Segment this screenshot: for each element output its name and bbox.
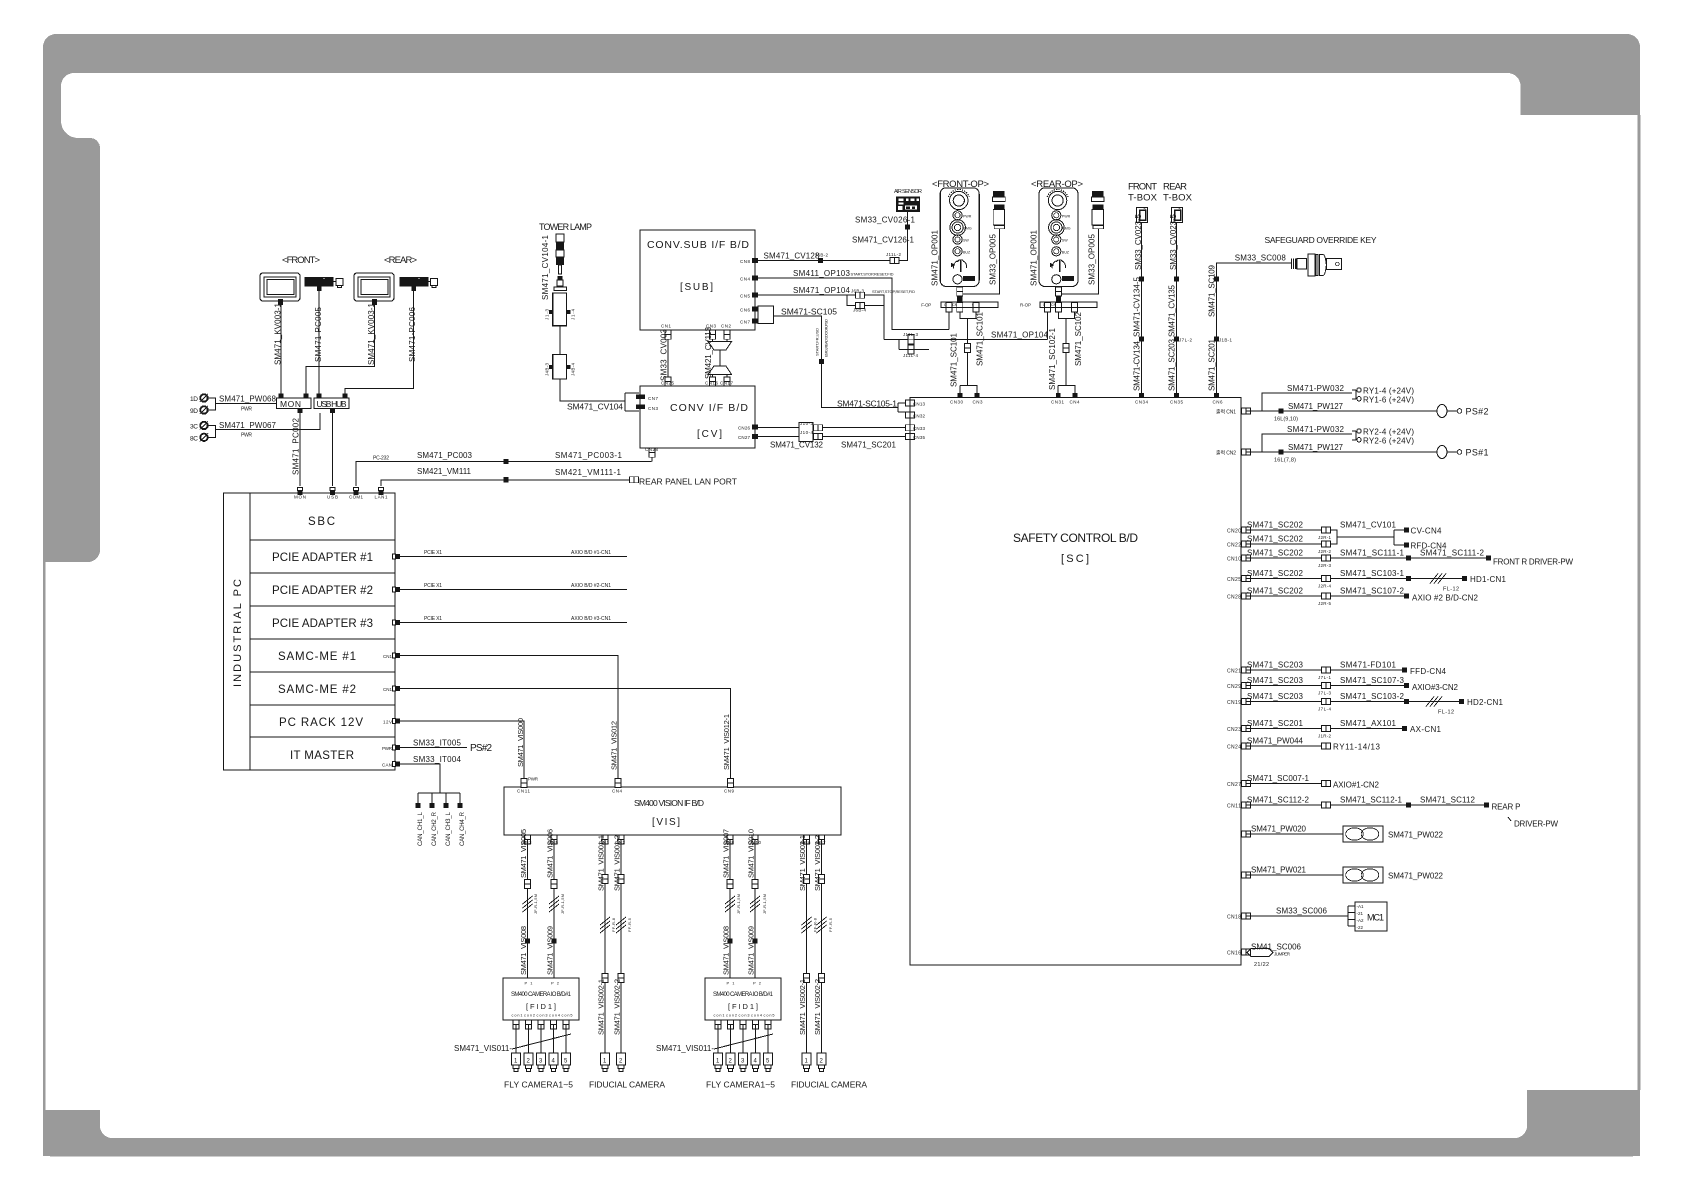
svg-text:SM471_SC202: SM471_SC202 [1247,587,1304,596]
VIS bottom pin CN7 [819,835,825,844]
svg-text:SM471_PC002: SM471_PC002 [292,417,301,475]
svg-text:CN25: CN25 [1227,577,1241,583]
industrial PC outer box [224,493,396,770]
LAN1 wire VM111 [381,480,632,486]
wire F-OP CN2 to OP103 [948,312,950,330]
svg-text:SM471_SC202: SM471_SC202 [1247,535,1304,544]
svg-text:CAN: CAN [382,763,392,768]
svg-text:SM471_VIS005: SM471_VIS005 [519,829,528,878]
svg-text:CN4: CN4 [740,276,750,281]
svg-text:CN26: CN26 [738,426,750,431]
svg-text:J10-4: J10-4 [800,430,813,435]
svg-text:FRONT: FRONT [1128,182,1157,193]
svg-text:J7L-4: J7L-4 [1318,707,1331,712]
svg-text:SM471_PW068: SM471_PW068 [219,395,277,404]
PCIE2 pin and wire [393,587,401,592]
MON top pins [279,394,284,399]
svg-text:SM400 CAMERA IO B/D#1: SM400 CAMERA IO B/D#1 [511,992,572,998]
CV top pin CN17 [724,377,730,386]
VIS top pins [521,778,527,787]
svg-text:CN24: CN24 [1227,745,1241,751]
PCIE1 pin and wire [393,554,401,559]
svg-text:SM471_KV003-1: SM471_KV003-1 [367,302,376,365]
svg-text:SM471_PC003-1: SM471_PC003-1 [555,451,623,460]
svg-text:con3: con3 [537,1014,548,1018]
svg-text:J6B-3: J6B-3 [851,288,864,293]
svg-text:CN11: CN11 [517,789,530,794]
svg-text:<REAR>: <REAR> [384,255,417,266]
svg-text:SM33_IT005: SM33_IT005 [413,739,462,748]
keyboard rear [400,277,438,291]
svg-text:SM33_SC008: SM33_SC008 [1235,253,1287,262]
svg-text:EMG: EMG [1062,227,1070,231]
monitor front [260,273,300,305]
svg-text:AXIO B/D #3-CN1: AXIO B/D #3-CN1 [571,616,611,622]
fiducial cameras 1 [601,1053,610,1072]
svg-text:21/22: 21/22 [1254,962,1269,968]
svg-text:SM471_PW067: SM471_PW067 [219,421,277,430]
svg-text:FF-R-8: FF-R-8 [611,917,616,932]
CV top pin CN25 [665,377,671,386]
svg-text:SM471_SC201: SM471_SC201 [1208,338,1217,391]
svg-text:SM471_SC202: SM471_SC202 [1247,521,1304,530]
svg-text:PCIE ADAPTER #1: PCIE ADAPTER #1 [272,552,373,564]
svg-text:SM471_VIS002-1: SM471_VIS002-1 [597,979,606,1035]
svg-text:SM471_SC007-1: SM471_SC007-1 [1247,774,1310,783]
svg-text:CONV.SUB I/F B/D: CONV.SUB I/F B/D [647,239,749,251]
svg-text:SM33_CV023-5: SM33_CV023-5 [1169,213,1178,270]
CV101 wire CN20/CN22 to CV-CN4 RFD-CN4 [1331,530,1405,545]
svg-text:FL-12: FL-12 [1438,710,1454,716]
wire keyboard rear to USB HUB [345,291,414,395]
svg-text:CN2: CN2 [721,324,731,329]
fly2 cable A [729,840,731,979]
svg-text:T-BOX: T-BOX [1163,193,1193,204]
svg-text:SM471_PW127: SM471_PW127 [1288,443,1344,452]
tower lamp connector box 2 [545,354,576,379]
svg-text:SM471_KV003-1: SM471_KV003-1 [274,302,283,365]
svg-text:J2R-5: J2R-5 [1318,601,1331,606]
svg-text:SM471_SC111-1: SM471_SC111-1 [1340,549,1405,558]
svg-text:SM471_SC109: SM471_SC109 [1208,264,1217,317]
svg-text:CN30: CN30 [950,400,963,405]
svg-text:SM471_SC201: SM471_SC201 [841,441,897,450]
svg-text:START,FR,USD: START,FR,USD [815,328,820,356]
svg-text:PCIE ADAPTER #2: PCIE ADAPTER #2 [272,585,373,597]
wire air sensor to SUB CN8 [758,212,908,261]
svg-text:SM421_CV113: SM421_CV113 [704,326,713,379]
svg-text:PWR: PWR [1062,214,1071,218]
PCIE adapter 2 row [250,605,395,607]
wire PW067 [208,413,320,437]
svg-text:SM471_VIS007: SM471_VIS007 [722,829,731,878]
svg-text:SM33_CV023-5: SM33_CV023-5 [1134,213,1143,270]
R-OP pins below [1044,303,1050,312]
CONV.SUB box [640,230,755,330]
svg-text:INDUSTRIAL PC: INDUSTRIAL PC [232,579,244,687]
svg-text:PCIE ADAPTER #3: PCIE ADAPTER #3 [272,618,373,630]
SC right CN24 row RY11 [1241,743,1250,749]
svg-text:SM471_SC201: SM471_SC201 [1247,719,1304,728]
svg-text:PC-232: PC-232 [373,456,389,462]
svg-text:SM471_OP104: SM471_OP104 [991,330,1049,339]
frame right block fillet [1521,102,1534,115]
svg-text:SM471_PW020: SM471_PW020 [1251,825,1307,834]
svg-text:USB HUB: USB HUB [317,399,347,409]
PC top pin LAN1 [379,488,384,496]
svg-text:SM471_VIS009: SM471_VIS009 [546,926,555,975]
svg-text:CONV I/F B/D: CONV I/F B/D [670,402,748,414]
svg-text:con3: con3 [739,1014,750,1018]
svg-text:-A2: -A2 [1357,918,1365,923]
svg-text:SM471-CV134: SM471-CV134 [1133,340,1142,391]
svg-text:J4B-4: J4B-4 [571,363,576,376]
svg-text:RY1-4 (+24V): RY1-4 (+24V) [1363,386,1414,395]
svg-text:CN32: CN32 [913,414,925,419]
PC RACK 12V row [250,736,395,738]
SUB pin CN4 [752,275,758,280]
svg-text:SM471_SC102: SM471_SC102 [1074,311,1083,366]
svg-text:CN28: CN28 [645,447,658,452]
wire SM33_CV003 SUB CN1 to CV CN25 [667,339,669,381]
svg-text:BUZ: BUZ [1062,250,1070,254]
svg-text:RY2-6 (+24V): RY2-6 (+24V) [1363,436,1414,445]
svg-text:SM471_VIS000: SM471_VIS000 [516,718,525,767]
SC right CN28 row AXIO2 [1241,593,1250,599]
COM1 wire PC003 [356,462,652,487]
SAMC-ME 1 row [250,671,395,673]
svg-text:SM471-PW032: SM471-PW032 [1287,425,1345,434]
svg-text:CAN_CH4_R: CAN_CH4_R [460,811,466,846]
svg-text:J1-4: J1-4 [571,309,576,320]
svg-text:SM471_CV101: SM471_CV101 [1340,521,1397,530]
svg-text:FLY CAMERA1~5: FLY CAMERA1~5 [504,1080,573,1090]
svg-text:CN21: CN21 [1227,669,1241,675]
svg-text:USB: USB [327,495,338,500]
wire MON to PC [299,413,301,486]
wire rear T-BOX to SC CN35 [1176,223,1178,394]
svg-text:J10-3: J10-3 [800,421,813,426]
svg-text:SM471_PC003: SM471_PC003 [417,451,473,460]
tower lamp connector box 1 [545,293,576,326]
MON box [277,398,312,409]
svg-text:JF-R-1,5M: JF-R-1,5M [533,894,538,914]
CV left pin CN3 [640,405,645,410]
svg-text:SM471_CV135: SM471_CV135 [1168,284,1177,337]
svg-text:SM471_SC203: SM471_SC203 [1247,692,1304,701]
SC right CN20 row [1241,527,1250,533]
CAN drop 3 [445,793,447,803]
svg-text:J11L-3: J11L-3 [903,332,918,337]
svg-text:MC1: MC1 [1367,913,1384,923]
svg-text:R-OP: R-OP [1020,302,1031,307]
svg-text:CN6: CN6 [740,307,750,312]
svg-text:SM471-PW032: SM471-PW032 [1287,384,1345,393]
plug 8C [200,433,208,441]
air sensor icon [896,196,920,212]
SUB pin CN5 [752,293,758,298]
wire SM471-SC105 SUB CN6/CN7 to SC [758,306,774,324]
svg-text:SM471_VIS010: SM471_VIS010 [747,829,756,878]
svg-text:8C: 8C [190,435,198,442]
svg-text:CV-CN4: CV-CN4 [1411,527,1443,536]
svg-text:CN20: CN20 [1227,529,1241,535]
svg-text:1D: 1D [190,396,198,403]
svg-text:EMG,READY,DOOR,PSD: EMG,READY,DOOR,PSD [824,319,829,357]
svg-text:CN19: CN19 [1227,700,1241,706]
SUB bottom pin CN3 [710,330,716,339]
FID2 box [705,978,781,1020]
safeguard key icon [1291,254,1342,276]
svg-text:SM471-PC006: SM471-PC006 [408,306,417,362]
svg-text:CN27: CN27 [738,435,750,440]
svg-text:SM471_VIS002-2: SM471_VIS002-2 [613,979,622,1035]
svg-text:SM33_SC006: SM33_SC006 [1276,907,1328,916]
MON bottom pin [298,409,303,414]
fiducial2 cable A [806,840,808,1054]
VIS box [504,787,841,835]
svg-text:PS#1: PS#1 [1466,448,1489,458]
svg-text:FL-12: FL-12 [1443,587,1459,593]
svg-text:REAR PANEL LAN PORT: REAR PANEL LAN PORT [639,477,737,487]
svg-text:PC RACK 12V: PC RACK 12V [279,717,363,729]
svg-text:SM471_SC203: SM471_SC203 [1247,676,1304,685]
svg-text:JF-R-1,5M: JF-R-1,5M [736,894,741,914]
svg-text:SM471_PW022: SM471_PW022 [1388,831,1444,840]
svg-text:START,STOP,RESET,FID: START,STOP,RESET,FID [872,289,915,294]
svg-text:J2R-4: J2R-4 [1318,584,1331,589]
svg-text:MON: MON [294,495,306,500]
wire keyboard front to USB HUB [318,291,320,395]
SBC row divider [250,539,395,541]
svg-text:J7L-3: J7L-3 [1318,691,1331,696]
fly cameras 2 [714,1053,723,1072]
FRONT-OP panel [940,188,979,287]
svg-text:con4: con4 [549,1014,560,1018]
svg-text:CN28: CN28 [1227,595,1241,601]
svg-text:RY11-14/13: RY11-14/13 [1333,743,1381,752]
svg-text:SM471_SC103-2: SM471_SC103-2 [1340,692,1405,701]
svg-text:REAR P: REAR P [1492,803,1521,812]
svg-text:J11L-2: J11L-2 [886,252,901,257]
fly2 cable B [754,840,756,979]
svg-text:SM471_SC101: SM471_SC101 [950,332,959,387]
svg-text:JF-R-1,5M: JF-R-1,5M [762,894,767,914]
frame bottom-left tab [43,1110,100,1156]
PC top pin MON [298,488,303,496]
VIS bottom pin CN2 [618,835,624,844]
plug 3C [200,421,208,429]
svg-text:START,STOP,RESET,FID: START,STOP,RESET,FID [851,272,894,277]
svg-text:JUMPER: JUMPER [1274,952,1291,957]
svg-text:RY2-4 (+24V): RY2-4 (+24V) [1363,427,1414,436]
svg-text:SAMC-ME #1: SAMC-ME #1 [278,651,356,663]
svg-text:CN6: CN6 [1213,400,1223,405]
CV104 bracket at CONV [625,393,639,411]
svg-text:IT MASTER: IT MASTER [290,750,354,762]
svg-text:CN23: CN23 [1227,727,1241,733]
svg-text:AX-CN1: AX-CN1 [1410,725,1442,734]
monitor rear [354,273,394,305]
svg-text:J7L-2: J7L-2 [1179,338,1192,343]
svg-text:SM471_OP001: SM471_OP001 [1029,229,1038,286]
svg-text:CN35: CN35 [1170,400,1183,405]
CAN drop 2 [431,793,433,803]
svg-text:PCIE X1: PCIE X1 [424,616,442,622]
wire front T-BOX to SC CN34 [1141,223,1143,394]
wire CV CN28 to PC003 line [651,457,653,461]
svg-text:J1R-2: J1R-2 [1318,734,1331,739]
svg-text:SM471_SC112-2: SM471_SC112-2 [1247,796,1310,805]
svg-text:FF-R-5: FF-R-5 [627,917,632,932]
svg-text:J11L-4: J11L-4 [903,353,918,358]
svg-text:CN16: CN16 [1227,951,1241,957]
svg-text:SM33_CV003: SM33_CV003 [660,328,669,381]
svg-text:PWR: PWR [241,407,252,413]
svg-text:SM33_OP005: SM33_OP005 [989,233,998,285]
wire lamp box1 to box2 [559,326,561,355]
svg-text:con2: con2 [524,1014,535,1018]
svg-text:RY1-6 (+24V): RY1-6 (+24V) [1363,395,1414,404]
svg-text:16L(7,8): 16L(7,8) [1274,458,1296,464]
svg-text:<FRONT>: <FRONT> [282,255,320,266]
svg-text:AXIO B/D #1-CN1: AXIO B/D #1-CN1 [571,550,611,556]
svg-text:T-BOX: T-BOX [1128,193,1158,204]
svg-text:SBC: SBC [308,516,335,528]
SC right CN16 jumper row [1241,949,1250,955]
SUB pin CN7 [752,319,758,324]
fiducial1 cable B [620,840,622,1054]
CAN drop 4 [459,793,461,803]
F-OP trapezoid to SC CN30/CN3 [960,385,977,393]
USB HUB top pins [316,394,321,399]
wire USB HUB to PC [332,413,334,486]
svg-text:AXIO#3-CN2: AXIO#3-CN2 [1412,683,1459,692]
svg-text:J2R-3: J2R-3 [1318,563,1331,568]
FID1 camera wires [516,1025,566,1054]
PCIE adapter 1 row [250,572,395,574]
svg-text:SM471_SC112-1: SM471_SC112-1 [1340,796,1403,805]
svg-text:CN9: CN9 [724,789,734,794]
svg-text:SM471_SC102-1: SM471_SC102-1 [1048,327,1057,390]
fiducial cameras 2 [802,1053,811,1072]
wire PW068 [208,398,277,410]
SM33_OP005 connector rear [1091,191,1104,229]
svg-text:SM471_SC107-3: SM471_SC107-3 [1340,676,1405,685]
svg-text:SM471_VIS011-: SM471_VIS011- [454,1044,512,1053]
wire monitor rear to MON [306,305,375,395]
svg-text:CN22: CN22 [1227,543,1241,549]
frame thin right line [1638,115,1641,1090]
VIS bottom pin CN8 [727,835,733,844]
MC1 block [1355,902,1387,931]
VIS bottom pin CN10 [752,835,758,844]
VIS bottom pin CN1 [602,835,608,844]
svg-text:J7L-1: J7L-1 [1318,675,1331,680]
svg-text:SM33_OP005: SM33_OP005 [1087,233,1096,285]
SC right CN29 row AXIO3 [1241,683,1250,689]
svg-text:SM471_PW022: SM471_PW022 [1388,872,1444,881]
svg-text:SM471_VIS009: SM471_VIS009 [747,926,756,975]
svg-text:JF-R-1,5M: JF-R-1,5M [560,894,565,914]
wire SM471_OP104 SUB CN5 to REAR-OP [758,295,1047,339]
VIS bottom pin CN3 [525,835,531,844]
svg-text:CN1: CN1 [661,324,671,329]
SUB bottom pin CN2 [724,330,730,339]
svg-text:SM471_CV104-1: SM471_CV104-1 [541,234,550,300]
svg-text:LAN1: LAN1 [375,495,388,500]
svg-text:CN3: CN3 [648,406,658,411]
svg-text:CN17: CN17 [720,381,733,386]
wire FRONT-OP estop to F-OP bar [959,287,961,303]
svg-text:[FID1]: [FID1] [728,1002,758,1011]
PC top pin COM1 [354,488,359,496]
SC right CN11 row rear driver [1241,802,1250,808]
svg-text:SM471_PW044: SM471_PW044 [1247,737,1304,746]
svg-text:SM471_SC203: SM471_SC203 [1168,338,1177,391]
fly1 cable A [527,840,529,979]
svg-text:SM471_SC111-2: SM471_SC111-2 [1420,549,1485,558]
frame left column with step and rounded bottom [43,73,100,562]
svg-text:J2R-2: J2R-2 [1318,549,1331,554]
wire lamp to CV104 bracket [560,379,625,401]
fly1 cable B [553,840,555,979]
wire safeguard key to SC CN6 [1217,263,1292,393]
svg-text:CN18: CN18 [1227,915,1241,921]
svg-text:SM400 CAMERA IO B/D#1: SM400 CAMERA IO B/D#1 [713,992,774,998]
CV right pin CN26 [752,425,758,430]
SC right PW020 row [1241,831,1250,837]
F-OP pins below [946,303,952,312]
svg-text:CN3: CN3 [973,400,983,405]
svg-text:SM471_PW021: SM471_PW021 [1251,866,1307,875]
wire CV CN26/CN27 to J10 connectors to SC [758,428,906,437]
wire SM421_CV113 SUB CN3/CN2 to CV CN16/CN17 [708,339,732,381]
svg-text:FFD-CN4: FFD-CN4 [1410,667,1447,676]
svg-text:J4B-3: J4B-3 [545,363,550,376]
SUB pin CN8 [752,258,758,263]
svg-text:SM471_VIS001-2: SM471_VIS001-2 [613,835,622,891]
svg-text:SM471_SC101: SM471_SC101 [976,311,985,366]
CV right pin CN27 [752,434,758,439]
svg-text:SAMC-ME #2: SAMC-ME #2 [278,684,356,696]
svg-text:출력 CN2: 출력 CN2 [1216,450,1236,457]
svg-text:SAFETY CONTROL B/D: SAFETY CONTROL B/D [1013,531,1138,545]
front T-BOX connector icon [1137,207,1148,223]
USB HUB bottom pin [330,409,335,414]
wire OP005 rear down [1059,229,1099,294]
frame interior carve [61,73,1521,1090]
svg-text:CN8: CN8 [740,259,750,264]
SC right CN18 row MC1 [1241,913,1250,919]
svg-text:con2: con2 [726,1014,737,1018]
SC right PW021 row [1241,872,1250,878]
svg-text:CN25: CN25 [661,381,674,386]
svg-text:SM471_SC202: SM471_SC202 [1247,569,1304,578]
svg-text:SM471_SC103-1: SM471_SC103-1 [1340,569,1405,578]
svg-text:SM41_SC006: SM41_SC006 [1251,943,1302,952]
svg-text:AIR SENSOR: AIR SENSOR [894,189,922,195]
SC right CN23 row AX [1241,726,1250,732]
svg-text:SM471_OP001: SM471_OP001 [931,229,940,286]
svg-text:9D: 9D [190,408,198,415]
svg-text:SM421_VM111: SM421_VM111 [417,467,472,476]
svg-text:REAR: REAR [1163,182,1187,193]
VIS bottom pin CN5 [551,835,557,844]
svg-text:CN5: CN5 [740,294,750,299]
CAN drop 1 [417,793,419,803]
svg-text:con1: con1 [512,1014,523,1018]
